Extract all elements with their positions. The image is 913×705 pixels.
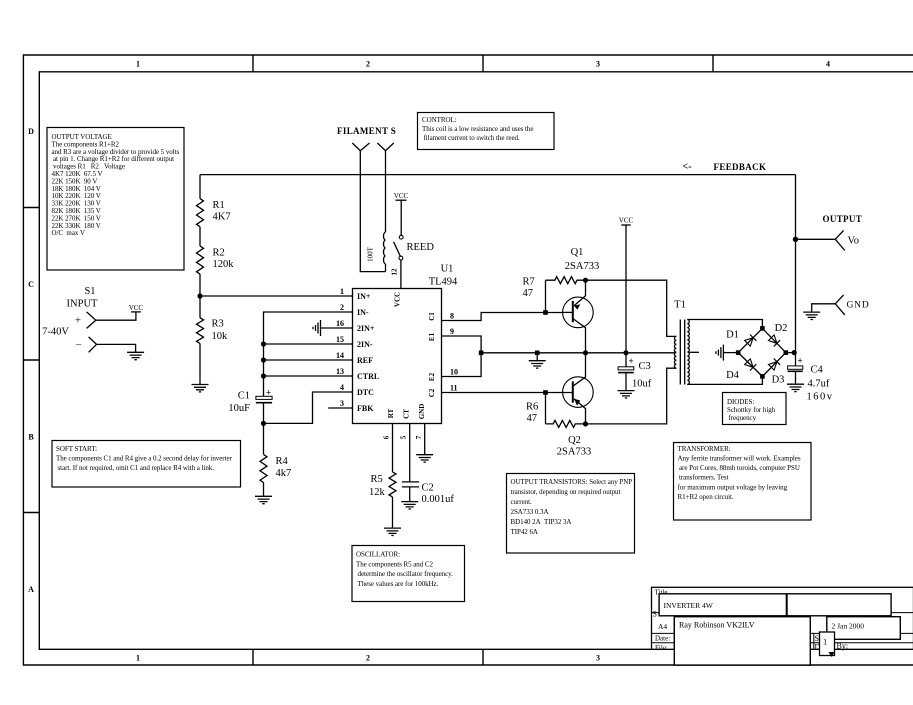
svg-text:These values are for 100kHz.: These values are for 100kHz. (358, 580, 439, 588)
svg-text:13: 13 (336, 367, 344, 376)
svg-text:12: 12 (391, 268, 399, 276)
svg-text:C2: C2 (422, 483, 434, 494)
svg-text:A4: A4 (658, 622, 667, 631)
transistor Q2 2SA733 (546, 353, 594, 458)
svg-text:+: + (266, 388, 271, 398)
svg-text:12k: 12k (369, 487, 386, 498)
resistor R7 (546, 277, 586, 313)
svg-text:4: 4 (826, 60, 830, 69)
capacitor C2 (402, 482, 454, 505)
svg-text:IN-: IN- (357, 308, 369, 317)
svg-text:FEEDBACK: FEEDBACK (714, 162, 767, 172)
svg-text:current.: current. (511, 498, 532, 506)
svg-text:3: 3 (596, 654, 600, 663)
svg-text:RT: RT (387, 408, 395, 418)
svg-text:D3: D3 (772, 375, 785, 386)
wire ground tap drop (536, 353, 538, 361)
core (680, 320, 684, 385)
svg-text:C3: C3 (639, 361, 651, 372)
author box Ray Robinson VK2ILV (674, 617, 810, 665)
resistor R6 (546, 393, 586, 428)
svg-text:IN+: IN+ (357, 292, 371, 301)
wire R4 bottom to ground (263, 483, 265, 497)
svg-text:This coil is a low resistance: This coil is a low resistance and uses t… (422, 125, 533, 133)
wire U1 pin 16 stub (321, 327, 353, 329)
wire center rail E1/E2 to transformer centre tap (481, 352, 676, 354)
wire RT pin 6 down to R5 (392, 424, 394, 472)
wire R5 bottom to ground (392, 497, 394, 528)
svg-text:VCC: VCC (394, 192, 409, 200)
svg-text:2IN-: 2IN- (357, 340, 373, 349)
node junction pin14 on bus (261, 357, 266, 362)
svg-text:TL494: TL494 (429, 277, 458, 288)
svg-text:10: 10 (450, 368, 458, 377)
connector Vo output (835, 230, 845, 250)
inductor L1 100T reed coil (383, 232, 385, 264)
resistor R5 (389, 472, 396, 497)
svg-text:E1: E1 (428, 332, 436, 341)
resistor R2 (197, 246, 204, 274)
svg-text:R1: R1 (213, 200, 225, 211)
node junction R2/R3/pin1 (197, 293, 202, 298)
svg-text:Date:: Date: (655, 635, 670, 643)
svg-text:R5: R5 (371, 474, 383, 485)
diode bridge frame (738, 328, 786, 376)
wire R2 bottom through node to R3 top (199, 274, 201, 318)
svg-text:160v: 160v (807, 392, 834, 403)
sheet number box 1 (820, 632, 835, 656)
svg-text:2: 2 (366, 60, 370, 69)
ground below U1 pin 7 (416, 455, 433, 462)
svg-text:4k7: 4k7 (276, 468, 292, 479)
wire coil bottom lead (385, 264, 387, 272)
svg-text:47: 47 (523, 288, 534, 299)
svg-text:7: 7 (415, 435, 423, 439)
wire GND pin 7 down to ground (424, 424, 426, 455)
wire U1 pin 9 to common emitter line (442, 336, 482, 353)
wire U1 pin 11 to Q2 base (442, 392, 546, 394)
node junction pin4 branch on bus (261, 421, 266, 426)
note box DIODES (723, 393, 787, 425)
svg-text:2: 2 (340, 303, 344, 312)
svg-text:The components C1 and R4 give: The components C1 and R4 give a 0.2 seco… (56, 455, 233, 463)
switch S1 input connector plus (87, 312, 96, 329)
note box CONTROL (418, 113, 555, 150)
wire plus terminal to VCC (96, 312, 136, 320)
svg-text:1: 1 (136, 60, 140, 69)
switch REED (394, 235, 435, 260)
resistor R4 (260, 454, 267, 482)
node junction bridge bottom (760, 374, 765, 379)
node junction Q2 base (543, 390, 548, 395)
wire GND connector to ground (812, 304, 836, 312)
ground below R3 (192, 385, 209, 392)
ground below C4 (787, 384, 804, 391)
svg-text:GND: GND (847, 301, 870, 311)
svg-text:4: 4 (340, 383, 344, 392)
svg-text:R4: R4 (276, 456, 289, 467)
capacitor C4 (788, 356, 834, 403)
ground below center rail (529, 361, 546, 368)
svg-text:1: 1 (340, 287, 344, 296)
wire U1 pin 13 (264, 375, 353, 377)
node junction R7 / Q1 emitter / top rail (583, 278, 588, 283)
note box TRANSFORMER (674, 443, 812, 521)
svg-text:C: C (28, 280, 34, 289)
resistor R3 (197, 318, 204, 344)
secondary winding (687, 320, 689, 385)
wire FEEDBACK net (top horizontal from R1 top to output node corner) (200, 174, 796, 176)
svg-text:C4: C4 (811, 365, 824, 376)
svg-text:TIP42 6A: TIP42 6A (511, 528, 538, 536)
wire node to U1 pin 1 (200, 295, 353, 297)
svg-text:C1: C1 (428, 312, 436, 321)
wire Vo tap to connector (796, 238, 836, 240)
svg-text:GND: GND (418, 404, 426, 420)
wire U1 pin 15 (264, 343, 353, 345)
svg-text:Ray Robinson VK2ILV: Ray Robinson VK2ILV (679, 621, 755, 630)
ground below input minus (127, 352, 144, 359)
wire bridge right node to output line (786, 352, 796, 354)
transistor Q1 2SA733 (563, 247, 600, 353)
node junction bridge right (784, 350, 789, 355)
svg-text:2: 2 (366, 654, 370, 663)
svg-text:16: 16 (336, 319, 344, 328)
svg-text:7-40V: 7-40V (42, 327, 69, 338)
wire CT pin 5 down to C2 (409, 424, 411, 482)
wire VCC to reed switch (400, 200, 402, 235)
svg-text:11: 11 (450, 384, 458, 393)
svg-text:CONTROL:: CONTROL: (422, 116, 457, 124)
svg-text:120k: 120k (213, 259, 235, 270)
svg-text:frequency: frequency (729, 414, 757, 422)
svg-text:VCC: VCC (619, 217, 634, 225)
node junction E1/E2 tie (479, 351, 484, 356)
svg-text:R3: R3 (212, 319, 224, 330)
wire U1 pin 8 to Q1 base (442, 313, 546, 321)
svg-text:1: 1 (136, 654, 140, 663)
wire secondary top to bridge top node (687, 320, 762, 329)
svg-text:6: 6 (383, 435, 391, 439)
op-amp U1 TL494 PWM controller body (353, 289, 442, 424)
resistor R1 (197, 199, 204, 227)
svg-text:R2: R2 (213, 248, 225, 259)
svg-text:D1: D1 (726, 330, 739, 341)
wire output vertical from feedback corner to C4 (795, 175, 797, 366)
svg-text:14: 14 (336, 351, 344, 360)
diode D3 (768, 358, 780, 370)
svg-text:FILAMENT S: FILAMENT S (337, 126, 396, 136)
svg-text:transformers. Test: transformers. Test (679, 474, 729, 482)
svg-text:INVERTER 4W: INVERTER 4W (664, 601, 714, 610)
svg-text:10k: 10k (212, 331, 229, 342)
wire R1 top lead from feedback line (199, 175, 201, 199)
svg-text:<-: <- (683, 162, 692, 173)
svg-text:R7: R7 (523, 277, 535, 288)
ground below GND connector (803, 312, 820, 319)
wire C4 bottom to ground (795, 371, 797, 384)
svg-text:BD140 2A TIP32 3A: BD140 2A TIP32 3A (511, 518, 572, 526)
svg-text:TRANSFORMER:: TRANSFORMER: (678, 445, 731, 453)
ground sideways at pin 16 (313, 320, 321, 336)
note box OUTPUT VOLTAGE (47, 128, 184, 271)
svg-text:+: + (75, 316, 81, 327)
svg-text:E2: E2 (428, 372, 436, 381)
wire C2 bottom to ground (409, 487, 411, 502)
svg-text:T1: T1 (674, 300, 686, 311)
svg-text:CT: CT (403, 409, 411, 419)
node junction R6 / Q2 emitter / bottom rail (583, 421, 588, 426)
svg-text:D4: D4 (726, 370, 740, 381)
svg-text:INPUT: INPUT (67, 299, 99, 310)
svg-text:15: 15 (336, 335, 344, 344)
wire secondary bottom to bridge bottom node (687, 376, 762, 384)
ground below C3 (618, 391, 635, 398)
node junction pin13 on bus (261, 373, 266, 378)
connector GND output (835, 295, 845, 315)
svg-text:–: – (75, 340, 82, 351)
node junction ground tap on center rail (535, 351, 540, 356)
wire center rail to C3 top (625, 353, 627, 367)
connector filament left (352, 143, 369, 151)
secondary centre stub (689, 351, 699, 353)
svg-text:3: 3 (596, 60, 600, 69)
wire filament right down to coil top (385, 151, 387, 233)
svg-text:start. If not required, omit C: start. If not required, omit C1 and repl… (58, 464, 215, 472)
node junction bridge left (736, 350, 741, 355)
svg-text:+: + (798, 356, 803, 366)
wire R3 bottom to ground (199, 344, 201, 385)
svg-text:9: 9 (450, 327, 454, 336)
wire U1 pin 10 to common emitter line (442, 353, 482, 377)
svg-text:B: B (28, 433, 34, 442)
capacitor C1 (228, 388, 272, 415)
svg-text:R6: R6 (526, 402, 538, 413)
svg-text:Schottky for high: Schottky for high (727, 406, 776, 414)
power VCC at input (131, 311, 141, 313)
svg-text:2SA733: 2SA733 (557, 447, 591, 458)
svg-text:O/C max V: O/C max V (52, 229, 85, 237)
svg-text:S1: S1 (84, 286, 95, 297)
svg-text:OSCILLATOR:: OSCILLATOR: (356, 551, 400, 559)
wire top rail Q1 emitter to transformer primary top (586, 280, 677, 336)
switch S1 input connector minus (89, 337, 97, 352)
svg-text:Vo: Vo (848, 236, 859, 247)
wire filament left down and across to coil bottom (360, 151, 385, 272)
wire C1 bottom to R4 (263, 403, 265, 455)
note box OUTPUT TRANSISTORS (507, 474, 635, 554)
svg-text:filament current to switch the: filament current to switch the reed. (424, 134, 520, 142)
svg-text:VCC: VCC (394, 292, 402, 307)
svg-text:2 Jan 2000: 2 Jan 2000 (832, 622, 865, 631)
title block (652, 587, 913, 665)
wire C3 bottom to ground (625, 372, 627, 390)
svg-text:By:: By: (837, 642, 849, 651)
svg-text:2IN+: 2IN+ (357, 324, 375, 333)
svg-text:D: D (28, 127, 34, 136)
wire U1 pin 14 (264, 359, 353, 361)
svg-text:for maximum output voltage by: for maximum output voltage by leaving (678, 484, 788, 492)
wire R1 to R2 (199, 227, 201, 246)
node junction bridge top (760, 326, 765, 331)
svg-text:are Pot Cores, 88mh toroids, c: are Pot Cores, 88mh toroids, computer PS… (679, 464, 800, 472)
svg-text:VCC: VCC (129, 304, 144, 312)
node junction pin15 on bus (261, 341, 266, 346)
svg-text:OUTPUT: OUTPUT (823, 214, 863, 224)
title text box INVERTER 4W (659, 594, 891, 616)
svg-text:100T: 100T (367, 246, 375, 262)
date box 2 Jan 2000 (827, 617, 901, 640)
svg-text:8: 8 (450, 312, 454, 321)
svg-text:2SA733: 2SA733 (565, 261, 599, 272)
svg-text:transistor, depending on requi: transistor, depending on required output (511, 488, 621, 496)
svg-text:DIODES:: DIODES: (727, 398, 754, 406)
svg-text:Q2: Q2 (568, 435, 581, 446)
diode D1 (744, 334, 756, 346)
svg-text:OUTPUT TRANSISTORS: Select any: OUTPUT TRANSISTORS: Select any PNP (511, 478, 633, 486)
svg-text:U1: U1 (441, 264, 454, 275)
ground below C2 (401, 502, 418, 509)
svg-text:1: 1 (823, 637, 827, 647)
svg-text:4K7: 4K7 (213, 212, 231, 223)
wire bridge left node to sideways ground (723, 352, 738, 354)
svg-text:Q1: Q1 (571, 247, 584, 258)
svg-text:R1+R2 open circuit.: R1+R2 open circuit. (678, 493, 734, 501)
svg-text:REF: REF (357, 356, 373, 365)
wire U1 pin 3 stub (328, 407, 352, 409)
note box OSCILLATOR (352, 546, 465, 602)
diode D4 (744, 358, 756, 370)
svg-text:The components R5 and C2: The components R5 and C2 (356, 561, 434, 569)
svg-text:10uf: 10uf (632, 379, 652, 390)
svg-text:C2: C2 (428, 388, 436, 397)
wire reed to U1 pin 12 (400, 260, 402, 289)
node junction collectors / center rail (583, 350, 588, 355)
diode D2 (768, 334, 780, 346)
svg-text:D2: D2 (775, 323, 788, 334)
wire U1 pin 4 branch (264, 392, 353, 423)
capacitor C3 (618, 356, 652, 390)
ground below R4 (255, 496, 272, 503)
svg-text:CTRL: CTRL (357, 372, 379, 381)
svg-text:C1: C1 (238, 391, 250, 402)
svg-text:FBK: FBK (357, 404, 374, 413)
wire U1 pin 2 bus vertical (264, 312, 353, 397)
svg-text:47: 47 (527, 413, 538, 424)
svg-text:REED: REED (407, 242, 435, 253)
svg-text:A: A (28, 585, 34, 594)
connector filament right (377, 143, 393, 151)
primary winding (674, 336, 676, 368)
svg-text:File:: File: (655, 644, 668, 652)
node junction Q1 base (543, 310, 548, 315)
ground sideways at bridge left (716, 345, 724, 361)
svg-text:Any ferrite transformer will w: Any ferrite transformer will work. Examp… (678, 455, 801, 463)
svg-text:2SA733 0.3A: 2SA733 0.3A (511, 508, 549, 516)
node junction Vo tap (793, 237, 798, 242)
svg-text:3: 3 (340, 399, 344, 408)
node junction VCC / C3 / center rail (623, 350, 628, 355)
transformer T1 (674, 300, 699, 385)
note box SOFT START (52, 441, 241, 488)
wire Q1 base lead (546, 312, 563, 314)
svg-text:5: 5 (400, 435, 408, 439)
svg-text:0.001uf: 0.001uf (422, 494, 455, 505)
svg-text:4.7uf: 4.7uf (808, 379, 830, 390)
svg-text:SOFT START:: SOFT START: (56, 445, 97, 453)
ground below R5 (384, 528, 401, 535)
svg-text:DTC: DTC (357, 388, 374, 397)
svg-text:10uF: 10uF (228, 403, 250, 414)
wire VCC down to center rail (625, 225, 627, 353)
wire bottom rail Q2 emitter to transformer primary bottom (586, 368, 677, 424)
svg-text:S: S (653, 610, 657, 619)
wire minus terminal to ground (97, 344, 136, 352)
svg-text:+: + (629, 356, 634, 366)
node junction output line / bridge (792, 350, 797, 355)
svg-text:determine the oscillator frequ: determine the oscillator frequency. (358, 570, 454, 578)
